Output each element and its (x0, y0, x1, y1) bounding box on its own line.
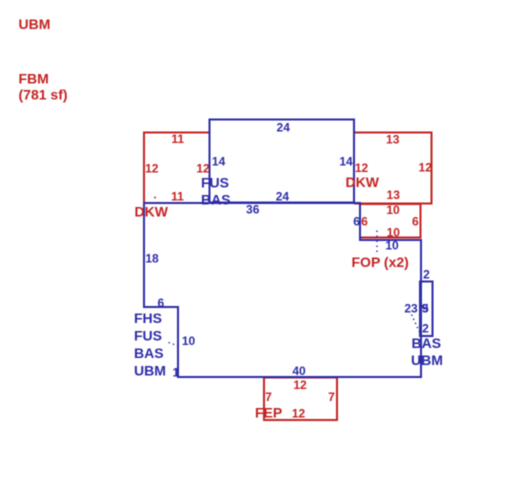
upper floor rectangle FUS/BAS (210, 120, 355, 203)
svg-text:FUS: FUS (134, 328, 162, 344)
svg-text:10: 10 (387, 226, 401, 240)
svg-text:UBM: UBM (134, 363, 166, 379)
porch FOP outline (360, 204, 421, 238)
svg-text:(781 sf): (781 sf) (19, 87, 68, 103)
svg-text:12: 12 (145, 162, 159, 176)
leader dotted line for FOP 10 (376, 231, 378, 254)
svg-text:FHS: FHS (134, 310, 162, 326)
svg-text:11: 11 (171, 190, 184, 204)
main floor polygon outline (144, 203, 421, 377)
svg-text:24: 24 (276, 190, 290, 204)
svg-text:23: 23 (404, 302, 418, 316)
svg-text:5: 5 (422, 302, 429, 316)
svg-text:18: 18 (145, 252, 159, 266)
svg-text:12: 12 (419, 161, 433, 175)
svg-text:7: 7 (328, 390, 335, 404)
svg-text:BAS: BAS (201, 192, 231, 208)
svg-text:40: 40 (292, 364, 306, 378)
svg-text:36: 36 (246, 203, 260, 217)
svg-text:DKW: DKW (135, 204, 169, 220)
svg-text:BAS: BAS (134, 345, 164, 361)
svg-text:13: 13 (386, 133, 400, 147)
svg-text:14: 14 (339, 155, 353, 169)
leader dotted line for 23 (412, 315, 420, 333)
deck DKW right outline (open left side, abuts house wall) (354, 133, 432, 204)
svg-text:6: 6 (361, 215, 368, 229)
svg-text:BAS: BAS (412, 335, 442, 351)
deck DKW left outline (open right side, abuts house wall) (144, 133, 210, 204)
svg-text:UBM: UBM (19, 16, 51, 32)
svg-text:10: 10 (182, 334, 196, 348)
svg-text:7: 7 (265, 390, 272, 404)
right bump-out rectangle (420, 282, 433, 337)
svg-text:14: 14 (212, 155, 226, 169)
leader dotted line for left 10 (169, 343, 179, 347)
svg-text:11: 11 (171, 132, 184, 146)
svg-text:12: 12 (196, 162, 210, 176)
svg-text:DKW: DKW (346, 174, 380, 190)
leader dot near 9 (421, 305, 423, 307)
svg-text:10: 10 (385, 239, 399, 253)
svg-text:2: 2 (423, 268, 430, 282)
svg-text:2: 2 (422, 322, 429, 336)
svg-text:12: 12 (293, 378, 307, 392)
svg-text:12: 12 (355, 161, 369, 175)
svg-text:1: 1 (172, 366, 179, 380)
svg-text:FUS: FUS (201, 175, 229, 191)
leader dot red near 11 (154, 197, 156, 199)
svg-text:6: 6 (412, 215, 419, 229)
svg-text:24: 24 (277, 121, 291, 135)
svg-text:FBM: FBM (19, 71, 49, 87)
svg-text:FOP (x2): FOP (x2) (352, 254, 409, 270)
svg-text:FEP: FEP (255, 405, 282, 421)
svg-text:12: 12 (292, 407, 306, 421)
svg-text:6: 6 (353, 215, 360, 229)
svg-text:UBM: UBM (411, 352, 443, 368)
svg-text:13: 13 (387, 188, 401, 202)
porch FEP outline (264, 378, 337, 421)
svg-text:6: 6 (157, 296, 164, 310)
svg-text:10: 10 (386, 203, 400, 217)
